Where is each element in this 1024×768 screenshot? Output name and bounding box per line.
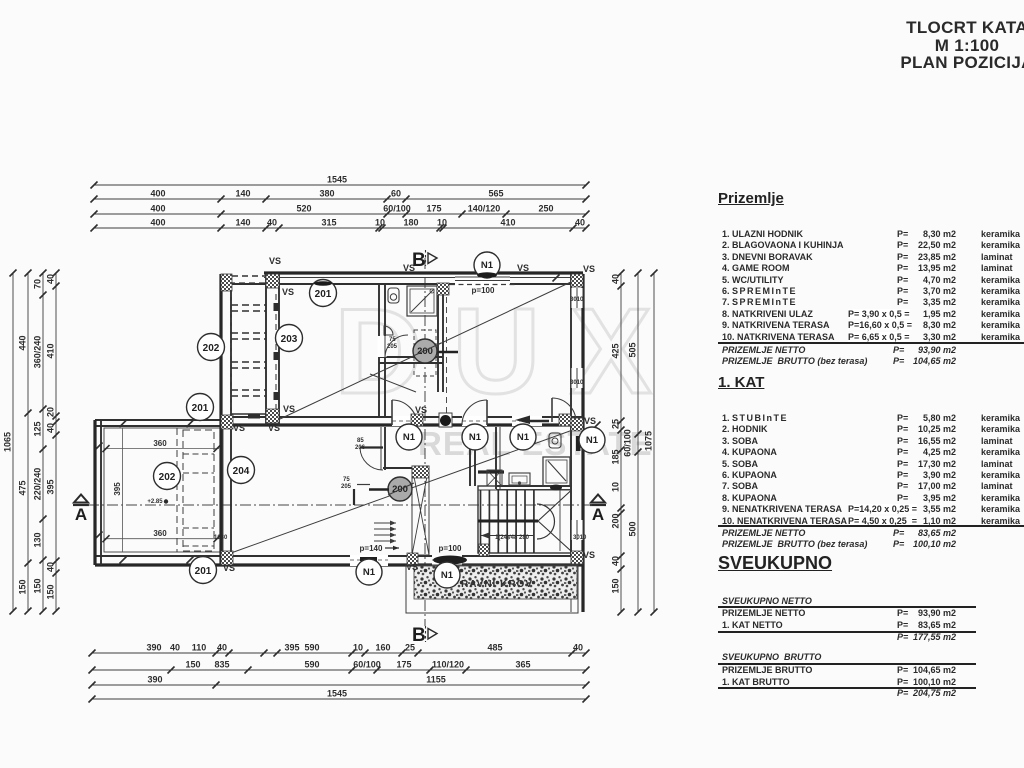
svg-text:60/100: 60/100 [383, 204, 411, 214]
svg-text:RAVNI KROV: RAVNI KROV [461, 579, 533, 590]
svg-text:40: 40 [217, 643, 227, 653]
svg-text:40: 40 [170, 643, 180, 653]
svg-text:40: 40 [46, 562, 56, 572]
svg-text:10: 10 [353, 643, 363, 653]
svg-text:N1: N1 [363, 567, 376, 578]
svg-text:390: 390 [146, 643, 161, 653]
svg-text:315: 315 [321, 218, 336, 228]
svg-text:520: 520 [296, 204, 311, 214]
svg-text:40: 40 [575, 218, 585, 228]
svg-text:40: 40 [267, 218, 277, 228]
svg-text:10: 10 [437, 218, 447, 228]
svg-text:395: 395 [284, 643, 299, 653]
svg-text:380: 380 [319, 189, 334, 199]
svg-text:400: 400 [150, 204, 165, 214]
svg-text:160: 160 [375, 643, 390, 653]
svg-text:VS: VS [406, 562, 418, 572]
svg-text:400: 400 [150, 218, 165, 228]
svg-text:140: 140 [235, 189, 250, 199]
svg-text:150: 150 [611, 578, 621, 593]
svg-text:250: 250 [538, 204, 553, 214]
svg-text:400: 400 [150, 189, 165, 199]
svg-text:150: 150 [18, 579, 28, 594]
svg-text:10: 10 [375, 218, 385, 228]
svg-text:485: 485 [487, 643, 502, 653]
svg-text:VS: VS [223, 563, 235, 573]
svg-text:201: 201 [195, 566, 212, 577]
svg-text:140/120: 140/120 [468, 204, 501, 214]
svg-text:140: 140 [235, 218, 250, 228]
svg-text:110: 110 [192, 643, 207, 653]
svg-text:40: 40 [611, 556, 621, 566]
svg-text:590: 590 [304, 643, 319, 653]
svg-text:40: 40 [573, 643, 583, 653]
svg-text:175: 175 [426, 204, 441, 214]
svg-text:410: 410 [500, 218, 515, 228]
svg-text:60: 60 [391, 189, 401, 199]
svg-text:565: 565 [488, 189, 503, 199]
svg-text:3010: 3010 [570, 380, 584, 386]
svg-text:VS: VS [583, 550, 595, 560]
svg-text:150: 150 [33, 578, 43, 593]
svg-text:180: 180 [403, 218, 418, 228]
svg-text:1545: 1545 [327, 175, 347, 185]
svg-text:N1: N1 [441, 570, 454, 581]
